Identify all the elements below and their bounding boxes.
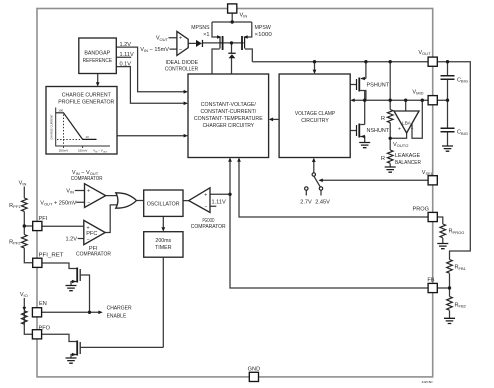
svg-text:CIRCUITRY: CIRCUITRY bbox=[301, 118, 329, 124]
svg-text:+: + bbox=[204, 192, 207, 198]
svg-text:VOUT + 250mV: VOUT + 250mV bbox=[40, 200, 77, 206]
svg-text:LEAKAGE: LEAKAGE bbox=[395, 153, 420, 159]
svg-text:PGOOD: PGOOD bbox=[203, 218, 215, 224]
svg-text:−: − bbox=[179, 47, 182, 53]
svg-text:×1: ×1 bbox=[203, 32, 209, 38]
svg-text:VOUT/2: VOUT/2 bbox=[393, 142, 409, 148]
svg-text:PSHUNT: PSHUNT bbox=[367, 82, 390, 88]
svg-text:200ms: 200ms bbox=[155, 238, 171, 244]
svg-text:CBIG: CBIG bbox=[457, 77, 468, 83]
svg-text:+: + bbox=[87, 189, 90, 195]
svg-text:PROFILE GENERATOR: PROFILE GENERATOR bbox=[58, 100, 114, 106]
svg-text:PFI: PFI bbox=[39, 216, 48, 222]
svg-text:VOUT: VOUT bbox=[156, 36, 169, 42]
svg-text:2.45V: 2.45V bbox=[315, 199, 330, 205]
svg-text:CONSTANT-VOLTAGE/: CONSTANT-VOLTAGE/ bbox=[201, 102, 256, 108]
svg-text:RFB2: RFB2 bbox=[455, 303, 467, 309]
svg-text:MPSW: MPSW bbox=[255, 25, 272, 31]
svg-text:−: − bbox=[411, 126, 414, 132]
svg-text:VIN − 15mV: VIN − 15mV bbox=[140, 47, 169, 53]
svg-text:VOLTAGE CLAMP: VOLTAGE CLAMP bbox=[295, 111, 335, 117]
svg-text:10: 10 bbox=[86, 135, 90, 139]
svg-text:FB: FB bbox=[427, 278, 434, 284]
svg-text:200mV: 200mV bbox=[59, 149, 69, 153]
svg-text:COMPARATOR: COMPARATOR bbox=[191, 224, 226, 230]
svg-text:150mV: 150mV bbox=[78, 149, 88, 153]
svg-text:VIN: VIN bbox=[240, 13, 248, 19]
svg-text:VIO: VIO bbox=[20, 292, 28, 298]
svg-text:1.2V: 1.2V bbox=[65, 237, 77, 243]
svg-text:ENABLE: ENABLE bbox=[107, 314, 127, 320]
svg-text:COMPARATOR: COMPARATOR bbox=[71, 176, 103, 182]
svg-text:4425 BD: 4425 BD bbox=[422, 380, 433, 384]
svg-text:CHARGE CURRENT: CHARGE CURRENT bbox=[62, 92, 111, 98]
svg-text:VSEL: VSEL bbox=[422, 170, 434, 176]
svg-text:R: R bbox=[381, 116, 385, 122]
svg-text:COMPARATOR: COMPARATOR bbox=[76, 251, 111, 257]
svg-text:+: + bbox=[398, 127, 401, 133]
svg-text:VIN: VIN bbox=[19, 181, 27, 187]
svg-text:CHARGER: CHARGER bbox=[107, 306, 132, 312]
svg-text:VMID: VMID bbox=[412, 89, 423, 95]
svg-text:−: − bbox=[87, 200, 90, 206]
svg-text:VOUT: VOUT bbox=[418, 50, 431, 56]
svg-text:RPROG: RPROG bbox=[449, 229, 465, 235]
svg-text:LBA: LBA bbox=[402, 120, 412, 125]
svg-text:VIN: VIN bbox=[66, 188, 74, 194]
svg-text:BALANCER: BALANCER bbox=[395, 160, 421, 166]
svg-text:2.7V: 2.7V bbox=[300, 199, 312, 205]
svg-text:REFERENCE: REFERENCE bbox=[83, 58, 113, 64]
svg-text:IDEAL DIODE: IDEAL DIODE bbox=[166, 60, 199, 66]
svg-text:1.11V: 1.11V bbox=[212, 200, 226, 206]
svg-text:1.11V: 1.11V bbox=[120, 52, 134, 58]
svg-text:RPF2: RPF2 bbox=[9, 239, 21, 245]
svg-text:100: 100 bbox=[58, 108, 63, 112]
svg-text:+: + bbox=[179, 36, 182, 42]
svg-text:MPSNS: MPSNS bbox=[191, 25, 209, 31]
svg-text:RPF1: RPF1 bbox=[9, 203, 21, 209]
svg-text:1.2V: 1.2V bbox=[120, 42, 132, 48]
svg-text:×1000: ×1000 bbox=[255, 32, 272, 38]
svg-text:BANDGAP: BANDGAP bbox=[84, 50, 110, 56]
svg-text:−: − bbox=[86, 237, 89, 243]
svg-text:EN: EN bbox=[39, 301, 47, 307]
svg-text:CHARGE CURRENT: CHARGE CURRENT bbox=[50, 114, 54, 140]
svg-text:CONTROLLER: CONTROLLER bbox=[165, 67, 198, 73]
svg-text:GND: GND bbox=[248, 366, 260, 372]
svg-text:−: − bbox=[204, 204, 207, 210]
svg-text:RFB1: RFB1 bbox=[455, 265, 467, 271]
svg-text:CHARGER CIRCUITRY: CHARGER CIRCUITRY bbox=[203, 123, 255, 129]
svg-text:CONSTANT-CURRENT/: CONSTANT-CURRENT/ bbox=[200, 109, 256, 115]
svg-text:TIMER: TIMER bbox=[155, 245, 172, 251]
svg-text:0.1V: 0.1V bbox=[120, 61, 132, 67]
svg-text:CBIG: CBIG bbox=[457, 130, 468, 136]
svg-text:PFC: PFC bbox=[86, 231, 97, 237]
svg-text:NSHUNT: NSHUNT bbox=[367, 128, 390, 134]
svg-text:R: R bbox=[381, 156, 385, 162]
svg-text:PFI_RET: PFI_RET bbox=[39, 252, 65, 258]
svg-text:PFO: PFO bbox=[39, 325, 51, 331]
svg-text:CONSTANT-TEMPERATURE: CONSTANT-TEMPERATURE bbox=[194, 116, 263, 122]
svg-text:PROG: PROG bbox=[413, 207, 429, 213]
svg-text:OSCILLATOR: OSCILLATOR bbox=[147, 201, 180, 207]
